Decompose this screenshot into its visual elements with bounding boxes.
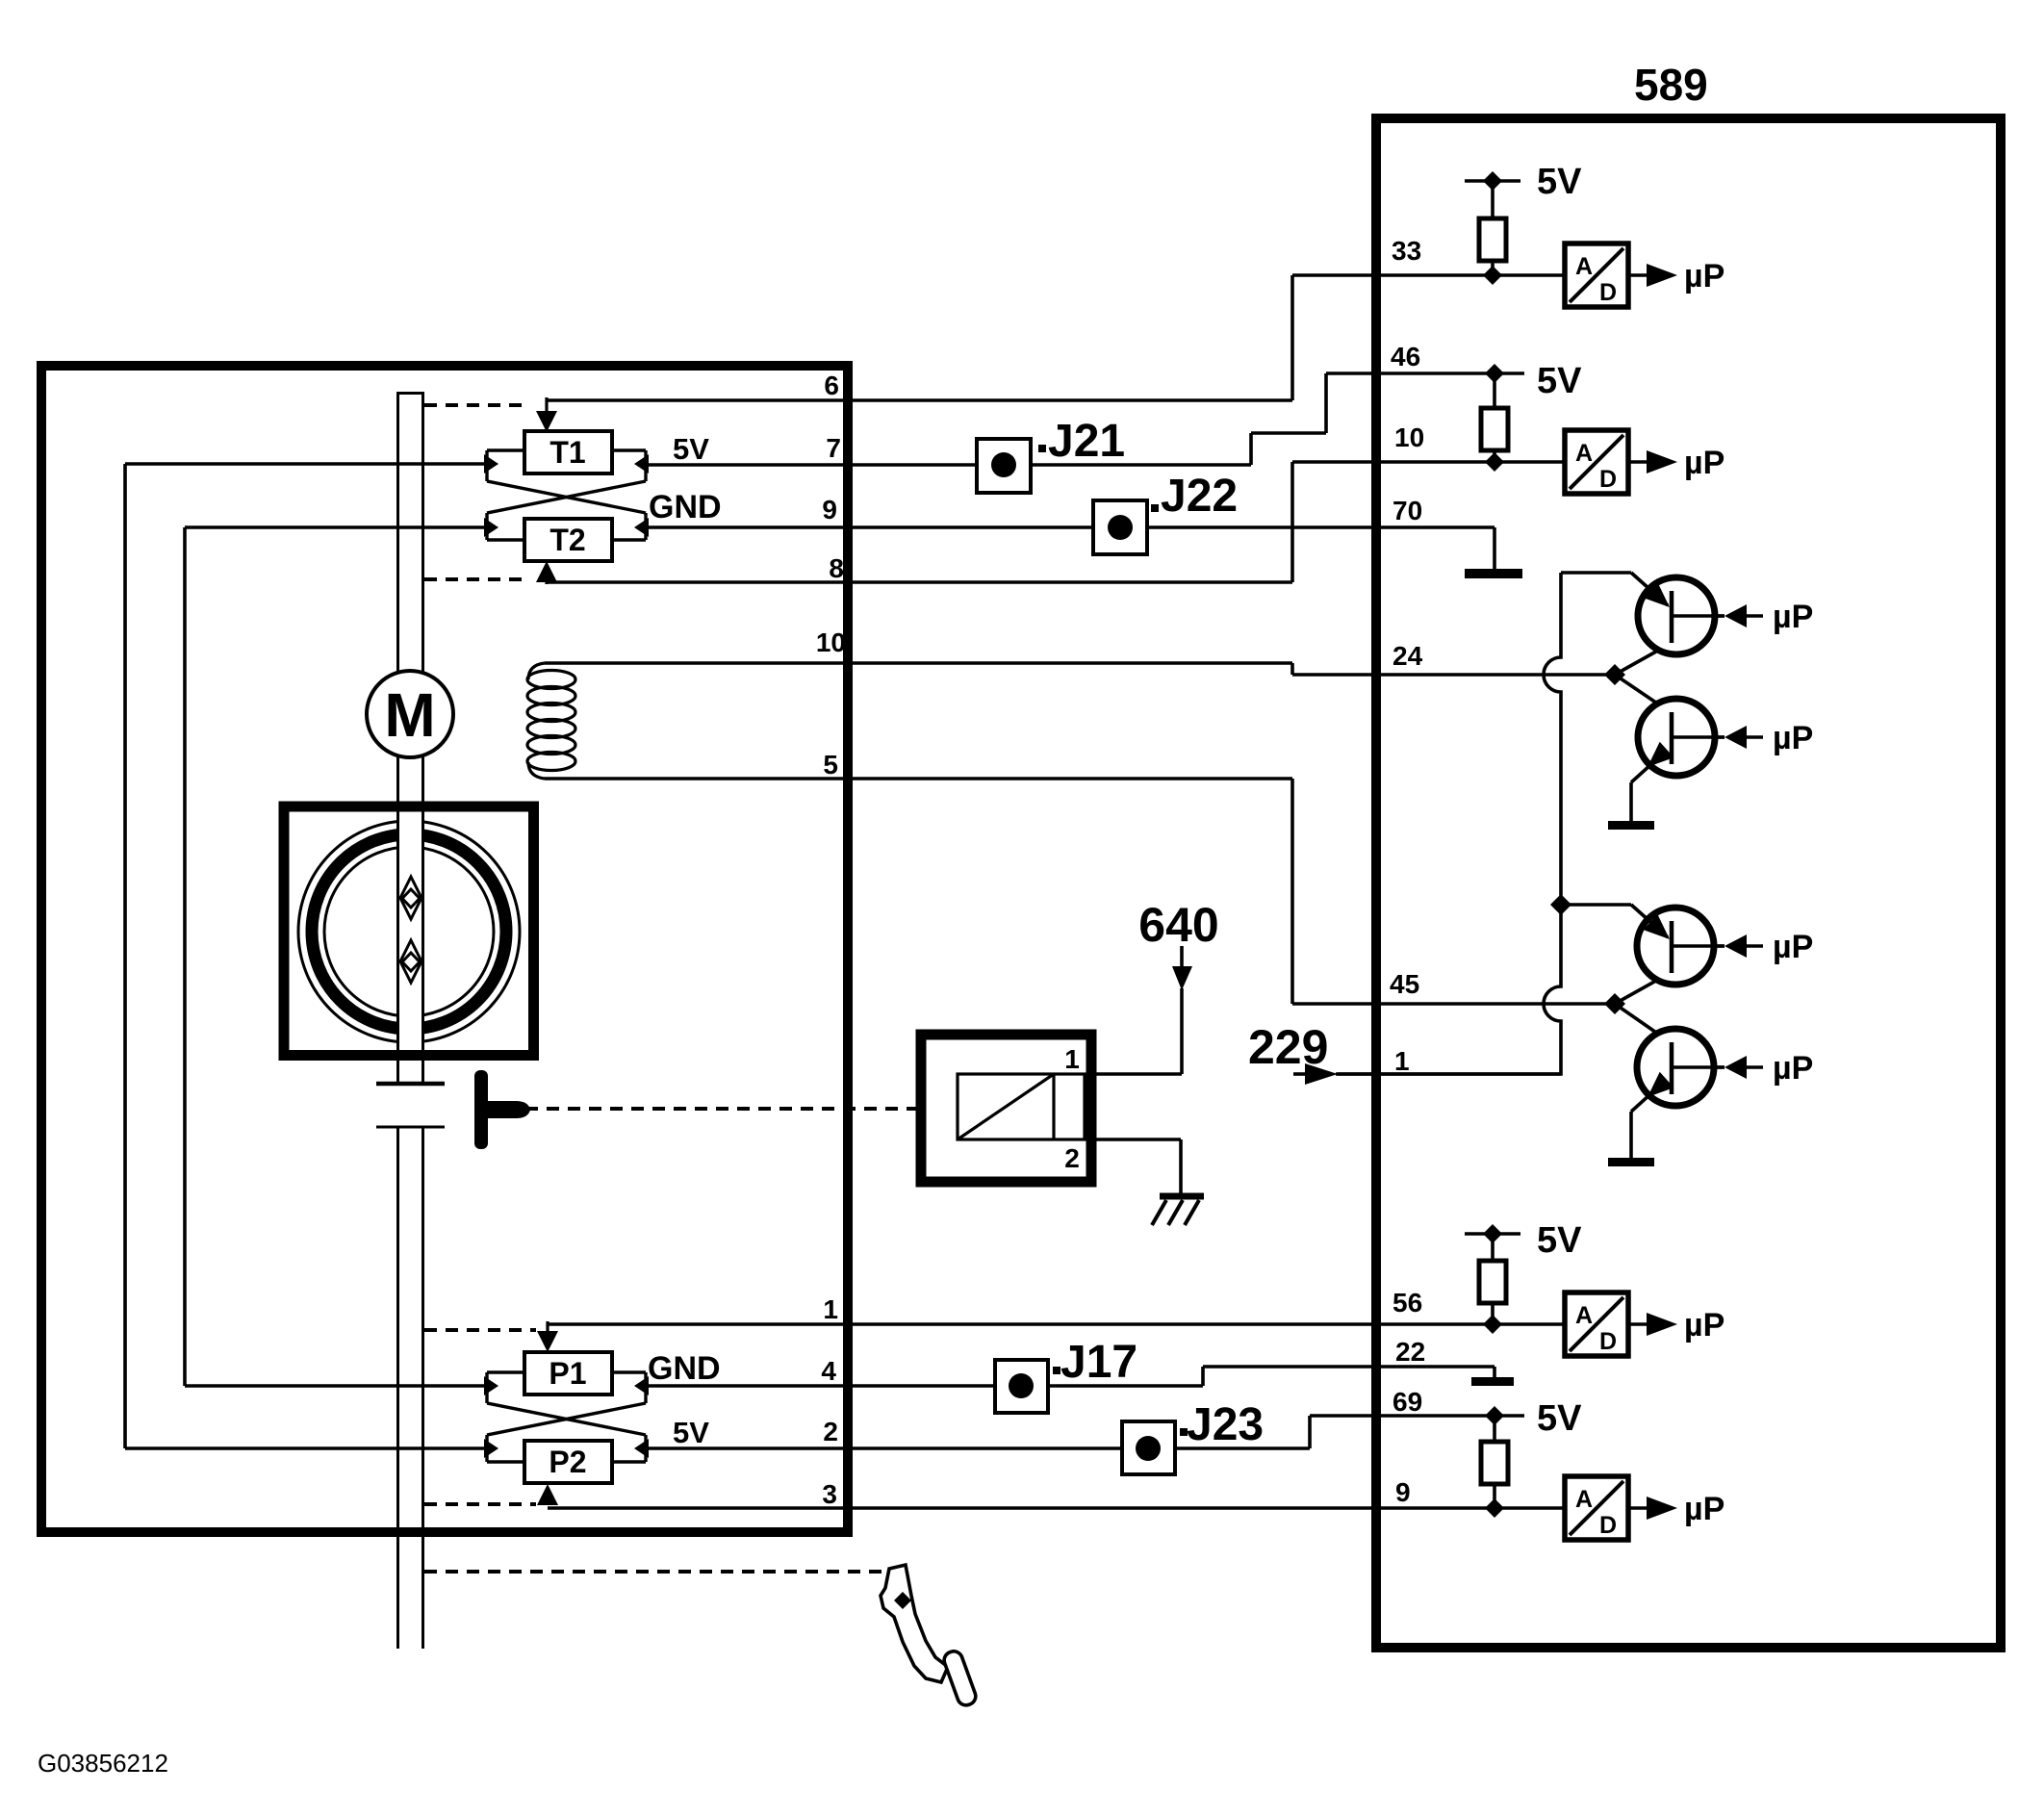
svg-text:24: 24 <box>1392 641 1423 671</box>
svg-text:5V: 5V <box>1537 1220 1582 1261</box>
svg-text:22: 22 <box>1395 1337 1425 1367</box>
svg-text:T2: T2 <box>549 523 585 557</box>
svg-text:µP: µP <box>1773 720 1813 756</box>
svg-text:T1: T1 <box>549 435 585 470</box>
svg-text:1: 1 <box>823 1294 838 1324</box>
svg-text:GND: GND <box>648 1350 721 1387</box>
svg-text:10: 10 <box>1394 422 1424 452</box>
svg-text:7: 7 <box>826 433 841 463</box>
svg-text:45: 45 <box>1390 969 1419 999</box>
svg-text:D: D <box>1599 1328 1617 1355</box>
svg-text:D: D <box>1599 279 1617 306</box>
svg-text:µP: µP <box>1684 1491 1725 1527</box>
svg-text:J22: J22 <box>1161 471 1238 522</box>
svg-text:J23: J23 <box>1187 1399 1264 1450</box>
svg-text:2: 2 <box>823 1417 838 1446</box>
svg-text:5V: 5V <box>1537 361 1582 401</box>
svg-text:A: A <box>1575 1302 1593 1329</box>
svg-text:D: D <box>1599 1512 1617 1539</box>
svg-text:5V: 5V <box>673 432 709 466</box>
svg-text:10: 10 <box>816 627 846 657</box>
svg-text:µP: µP <box>1684 1307 1725 1344</box>
svg-text:J17: J17 <box>1060 1337 1137 1388</box>
svg-text:5V: 5V <box>673 1416 709 1449</box>
svg-text:J21: J21 <box>1048 416 1125 467</box>
svg-text:33: 33 <box>1392 236 1421 266</box>
svg-text:640: 640 <box>1138 898 1218 952</box>
svg-text:µP: µP <box>1773 929 1813 965</box>
svg-text:589: 589 <box>1634 60 1708 110</box>
svg-text:1: 1 <box>1394 1046 1410 1076</box>
svg-text:9: 9 <box>1395 1477 1411 1507</box>
svg-text:D: D <box>1599 466 1617 493</box>
svg-text:5V: 5V <box>1537 1398 1582 1439</box>
svg-text:229: 229 <box>1248 1020 1328 1074</box>
svg-text:P1: P1 <box>549 1356 586 1391</box>
svg-text:A: A <box>1575 1486 1593 1513</box>
svg-text:P2: P2 <box>549 1445 586 1479</box>
svg-text:5: 5 <box>823 750 838 780</box>
svg-text:A: A <box>1575 440 1593 467</box>
svg-text:µP: µP <box>1773 599 1813 635</box>
svg-text:46: 46 <box>1391 342 1420 371</box>
svg-text:4: 4 <box>821 1356 836 1386</box>
svg-text:GND: GND <box>649 489 722 525</box>
svg-text:8: 8 <box>829 553 844 583</box>
svg-text:1: 1 <box>1064 1044 1080 1074</box>
svg-text:6: 6 <box>824 371 839 400</box>
svg-text:µP: µP <box>1684 258 1725 294</box>
svg-text:5V: 5V <box>1537 162 1582 202</box>
svg-text:µP: µP <box>1773 1050 1813 1087</box>
svg-text:70: 70 <box>1392 496 1422 525</box>
svg-text:2: 2 <box>1064 1143 1080 1173</box>
svg-text:9: 9 <box>822 495 837 525</box>
svg-text:56: 56 <box>1392 1288 1422 1318</box>
svg-text:M: M <box>384 680 435 750</box>
svg-text:69: 69 <box>1392 1387 1422 1417</box>
svg-text:3: 3 <box>822 1479 837 1509</box>
svg-text:G03856212: G03856212 <box>38 1749 168 1778</box>
svg-text:µP: µP <box>1684 445 1725 481</box>
svg-text:A: A <box>1575 253 1593 280</box>
